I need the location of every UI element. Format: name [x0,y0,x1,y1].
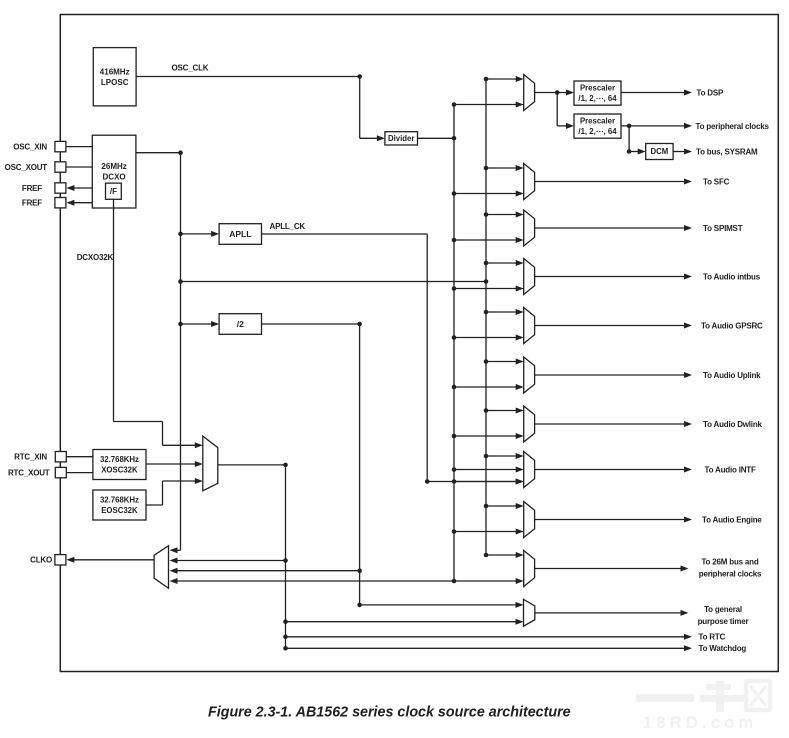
wire into APLL [181,233,213,235]
wire DCXO32K to RTC mux [163,444,196,446]
node bus1 tap Audio Uplink [452,385,457,390]
svg-text:To DSP: To DSP [697,88,725,97]
node bus1 tap Audio INTF [452,479,457,484]
node RTC out corner [283,463,288,468]
wire into DCM [629,151,639,153]
node bus1 tap Audio Engine [452,529,457,534]
node 32K watchdog corner [283,646,288,651]
node bus2 tap DSP [484,77,489,82]
wire EOSC32K output [146,504,163,506]
wire output Audio GPSRC [535,325,685,327]
svg-text:LPOSC: LPOSC [101,78,129,87]
wire bus2 to mux 26M bus [486,554,517,556]
wire APLL_CK vertical [426,234,428,482]
wire bus2 to mux Audio Uplink [486,361,517,363]
wire bus2 to mux Audio Engine [486,505,517,507]
wire 26M vertical [180,153,182,551]
wire Divider to bus1 [418,137,455,139]
svg-text:To Audio Uplink: To Audio Uplink [703,371,761,380]
svg-text:To Audio Engine: To Audio Engine [702,515,762,524]
pin FREF B [22,198,66,208]
svg-text:To peripheral clocks: To peripheral clocks [696,122,770,131]
wire bus1 to mux Audio Dwlink [454,435,517,437]
wire DCM output [673,151,685,153]
svg-text:/1, 2,⋯, 64: /1, 2,⋯, 64 [578,127,617,136]
node bus2 feed [484,279,489,284]
wire prescaler2 output [621,125,685,127]
svg-text:APLL_CK: APLL_CK [270,222,306,231]
pin OSC_XIN [13,141,66,151]
pin CLKO [30,555,66,565]
wire APLL_CK to INTF mux [427,481,517,483]
node 32K timer tap [283,619,288,624]
node bus1 end tap [452,579,457,584]
wire bus1 to mux Audio GPSRC [454,337,517,339]
wire bus2 to mux SPIMST [486,214,517,216]
wire APLL_CK horizontal [262,233,428,235]
svg-text:OSC_XIN: OSC_XIN [13,143,47,152]
svg-text:To 26M bus and: To 26M bus and [701,557,758,566]
mux CLKO select [154,546,168,589]
mux to Audio Dwlink [524,406,535,442]
svg-text:32.768KHz: 32.768KHz [100,455,139,464]
svg-text:DCM: DCM [651,147,669,156]
svg-text:CLKO: CLKO [30,556,52,565]
oscillator 26MHz DCXO [92,135,136,208]
wire bus2 to mux DSP [486,78,517,80]
svg-text:OSC_CLK: OSC_CLK [172,63,209,72]
svg-text:26MHz: 26MHz [101,162,126,171]
divider Divider [385,132,418,145]
wire bus1 vertical (divider net) [453,105,455,582]
divider /F [106,183,122,199]
svg-text:To Audio intbus: To Audio intbus [703,272,761,281]
mux to Audio intbus [524,259,535,295]
wire EOSC32K to RTC mux [163,480,196,482]
node APLL_CK corner [425,479,430,484]
wire output Audio Uplink [535,374,685,376]
wire output Audio intbus [535,276,685,278]
node OSC_CLK corner [357,74,362,79]
wire into prescaler2 [557,125,567,127]
wire CLKO mux to CLKO pin [73,559,154,561]
node bus2 tap Audio Uplink [484,359,489,364]
svg-text:purpose timer: purpose timer [698,617,749,626]
node bus2 tap SPIMST [484,212,489,217]
wire bus1 to mux SPIMST [454,239,517,241]
svg-text:DCXO: DCXO [103,173,126,182]
node dcm corner [627,149,632,154]
svg-text:RTC_XIN: RTC_XIN [14,453,47,462]
wire to Watchdog wire [286,647,686,649]
mux to SFC [524,164,535,200]
svg-text:Prescaler: Prescaler [580,84,615,93]
node bus2 tap Audio intbus [484,261,489,266]
wire DCXO32K jog horizontal [114,421,163,423]
wire DCXO32K vertical 2 [162,422,164,446]
wire into Divider [360,137,378,139]
node DCXO corner [178,150,183,155]
wire XOSC32K to RTC mux [146,463,196,465]
wire output SPIMST [535,227,685,229]
node bus1 tap Audio GPSRC [452,335,457,340]
node bus2 tap 26M bus [484,553,489,558]
wire into prescaler1 [557,92,567,94]
divider /2 [219,314,261,335]
node bus1 divider feed [452,136,457,141]
svg-text:To Audio Dwlink: To Audio Dwlink [703,420,763,429]
svg-text:OSC_XOUT: OSC_XOUT [5,163,48,172]
node 32K rtc tap [283,635,288,640]
wire OSC_XIN to DCXO [66,146,92,148]
node bus1 tap INTF mid [452,467,457,472]
mux to Audio INTF [524,452,535,488]
node bus2 tap SFC [484,166,489,171]
wire bus1 to mux Audio Engine [454,531,517,533]
prescaler 1 [574,81,621,105]
svg-text:/2: /2 [237,319,244,329]
svg-text:Figure 2.3-1. AB1562 series cl: Figure 2.3-1. AB1562 series clock source… [208,705,571,721]
wire 32K vertical [285,465,287,648]
wire bus1 to mux Audio Uplink [454,386,517,388]
node bus2 tap Audio INTF [484,454,489,459]
wire prescaler feed vertical [556,93,558,126]
wire bus1 to mux Audio INTF [454,481,517,483]
wire div2 to timer mux [360,604,517,606]
svg-text:To SFC: To SFC [703,177,730,186]
node dcm split [627,124,632,129]
wire OSC_CLK horizontal [136,76,360,78]
node 26M apll tap [178,232,183,237]
svg-text:416MHz: 416MHz [100,67,130,76]
svg-text:To general: To general [704,605,742,614]
node div2 clko tap [357,568,362,573]
wire bus2 to mux Audio INTF [486,455,517,457]
wire EOSC32K vertical [162,481,164,505]
wire bus2 to mux Audio Dwlink [486,410,517,412]
node bus2 tap Audio GPSRC [484,310,489,315]
oscillator 32.768KHz EOSC32K [93,490,146,520]
wire bus2 to mux SFC [486,167,517,169]
wire output Audio INTF [535,469,685,471]
node bus1 tap Audio Dwlink [452,434,457,439]
wire DCXO output [136,152,181,154]
watermark [636,681,770,732]
wire output timer [535,612,682,614]
node div2 timer corner [357,603,362,608]
node 26M div2 tap [178,322,183,327]
mux to SPIMST [524,210,535,246]
wire bus1 to mux Audio intbus [454,288,517,290]
wire to RTC wire [286,636,686,638]
wire 26M to CLKO mux top [177,549,181,551]
wire OSC_CLK vertical [359,77,361,139]
node bus1 tap SPIMST [452,238,457,243]
svg-text:To Audio GPSRC: To Audio GPSRC [701,321,763,330]
wire DCXO32K vertical 1 [113,199,115,421]
node bus1 tap Audio intbus [452,286,457,291]
mux to Audio Uplink [524,357,535,393]
wire bus2 to mux Audio GPSRC [486,311,517,313]
mux to 26M bus [524,551,535,587]
svg-text:/1, 2,⋯, 64: /1, 2,⋯, 64 [578,94,617,103]
wire dcm feed vertical [628,126,630,152]
svg-text:peripheral clocks: peripheral clocks [699,570,762,579]
svg-text:/F: /F [110,187,117,196]
wire DCXO to FREF B [73,202,92,204]
wire OSC_XOUT to DCXO [66,166,92,168]
wire 32K to timer mux [286,621,517,623]
wire output Audio Engine [535,519,685,521]
svg-text:FREF: FREF [22,184,42,193]
svg-text:To SPIMST: To SPIMST [703,224,743,233]
node bus2 tap Audio Dwlink [484,408,489,413]
wire output 26M bus [535,568,682,570]
svg-text:APLL: APLL [229,229,251,239]
wire bus2 to mux Audio intbus [486,262,517,264]
wire shared 26M-bus line y581 [177,580,517,582]
wire DCXO to FREF A [73,187,92,189]
wire output Audio Dwlink [535,423,685,425]
svg-text:EOSC32K: EOSC32K [101,506,138,515]
svg-text:RTC_XOUT: RTC_XOUT [8,469,50,478]
DCM [646,144,673,160]
prescaler 2 [574,114,621,138]
node 32K clko tap [283,558,288,563]
wire RTC_XOUT to XOSC32K [66,472,93,474]
mux to Audio GPSRC [524,308,535,344]
mux to Audio Engine [524,502,535,538]
wire into /2 [181,323,213,325]
node bus1 tap DSP [452,102,457,107]
pin OSC_XOUT [5,162,66,172]
wire 26M to bus2 [181,281,487,283]
pin RTC_XIN [14,452,66,462]
pll APLL [219,224,261,245]
node bus2 tap Audio Engine [484,504,489,509]
svg-text:18RD.com: 18RD.com [643,714,757,732]
wire bus1 to mux INTF mid [454,469,517,471]
node 26M bus2 tap [178,279,183,284]
mux to DSP [524,75,535,111]
node div2 corner [357,322,362,327]
svg-text:To Audio INTF: To Audio INTF [705,465,756,474]
oscillator 32.768KHz XOSC32K [93,450,146,480]
pin FREF A [22,183,66,193]
wire DSP mux output [535,92,558,94]
wire output SFC [535,181,685,183]
wire RTC_XIN to XOSC32K [66,456,93,458]
wire RTC mux output [218,464,286,466]
svg-text:FREF: FREF [22,199,42,208]
node bus1 tap SFC [452,191,457,196]
mux RTC 32K select [203,436,218,491]
svg-text:XOSC32K: XOSC32K [101,465,138,474]
wire div2 vertical [359,324,361,605]
node prescaler split [555,90,560,95]
wire bus1 to mux DSP [454,104,517,106]
wire bus1 to mux SFC [454,193,517,195]
oscillator 416MHz LPOSC [93,48,136,106]
pin RTC_XOUT [8,467,66,477]
svg-text:Prescaler: Prescaler [580,117,615,126]
svg-text:DCXO32K: DCXO32K [77,253,114,262]
svg-text:32.768KHz: 32.768KHz [100,496,139,505]
wire div2 to CLKO mux [177,570,360,572]
svg-text:To RTC: To RTC [699,633,726,642]
wire prescaler1 output [621,92,685,94]
svg-text:Divider: Divider [388,134,414,143]
svg-text:To bus, SYSRAM: To bus, SYSRAM [696,147,758,156]
wire bus2 vertical (26MHz net) [485,79,487,555]
mux to general purpose timer [524,599,535,626]
svg-text:To Watchdog: To Watchdog [699,644,747,653]
wire 32K to CLKO mux [177,560,286,562]
wire div2 output [262,323,360,325]
